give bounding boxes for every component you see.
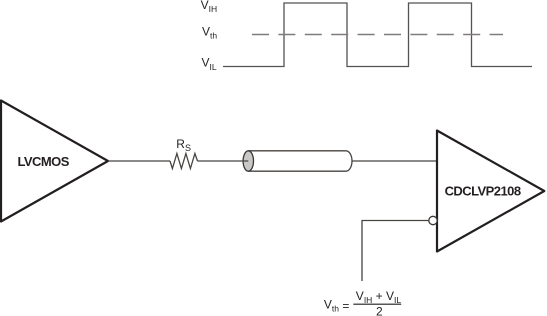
wire: resistor to cable: [198, 160, 249, 162]
svg-text:VIH + VIL: VIH + VIL: [356, 289, 402, 305]
wire: cable to receiver input: [352, 160, 437, 162]
svg-text:VIH: VIH: [201, 0, 218, 14]
svg-text:RS: RS: [176, 137, 191, 153]
wire: Vth reference to bubble: [362, 221, 429, 282]
svg-text:CDCLVP2108: CDCLVP2108: [445, 184, 521, 199]
svg-text:Vth =: Vth =: [324, 298, 349, 314]
svg-text:LVCMOS: LVCMOS: [18, 154, 70, 169]
transmission line cable left end cap: [243, 151, 253, 171]
transmission line cable body: [248, 151, 352, 171]
formula Vth = (VIH + VIL)/2: [324, 289, 401, 316]
threshold dashed line Vth: [252, 34, 503, 36]
svg-text:2: 2: [376, 305, 383, 316]
svg-text:VIL: VIL: [202, 56, 217, 72]
resistor RS: [170, 154, 198, 169]
waveform square wave: [223, 3, 532, 67]
buffer U1 LVCMOS: [1, 101, 108, 222]
wire: LVCMOS output to resistor: [108, 160, 170, 162]
svg-text:Vth: Vth: [202, 25, 217, 41]
bubble on Vth input: [429, 216, 437, 224]
buffer U2 CDCLVP2108: [437, 131, 544, 252]
